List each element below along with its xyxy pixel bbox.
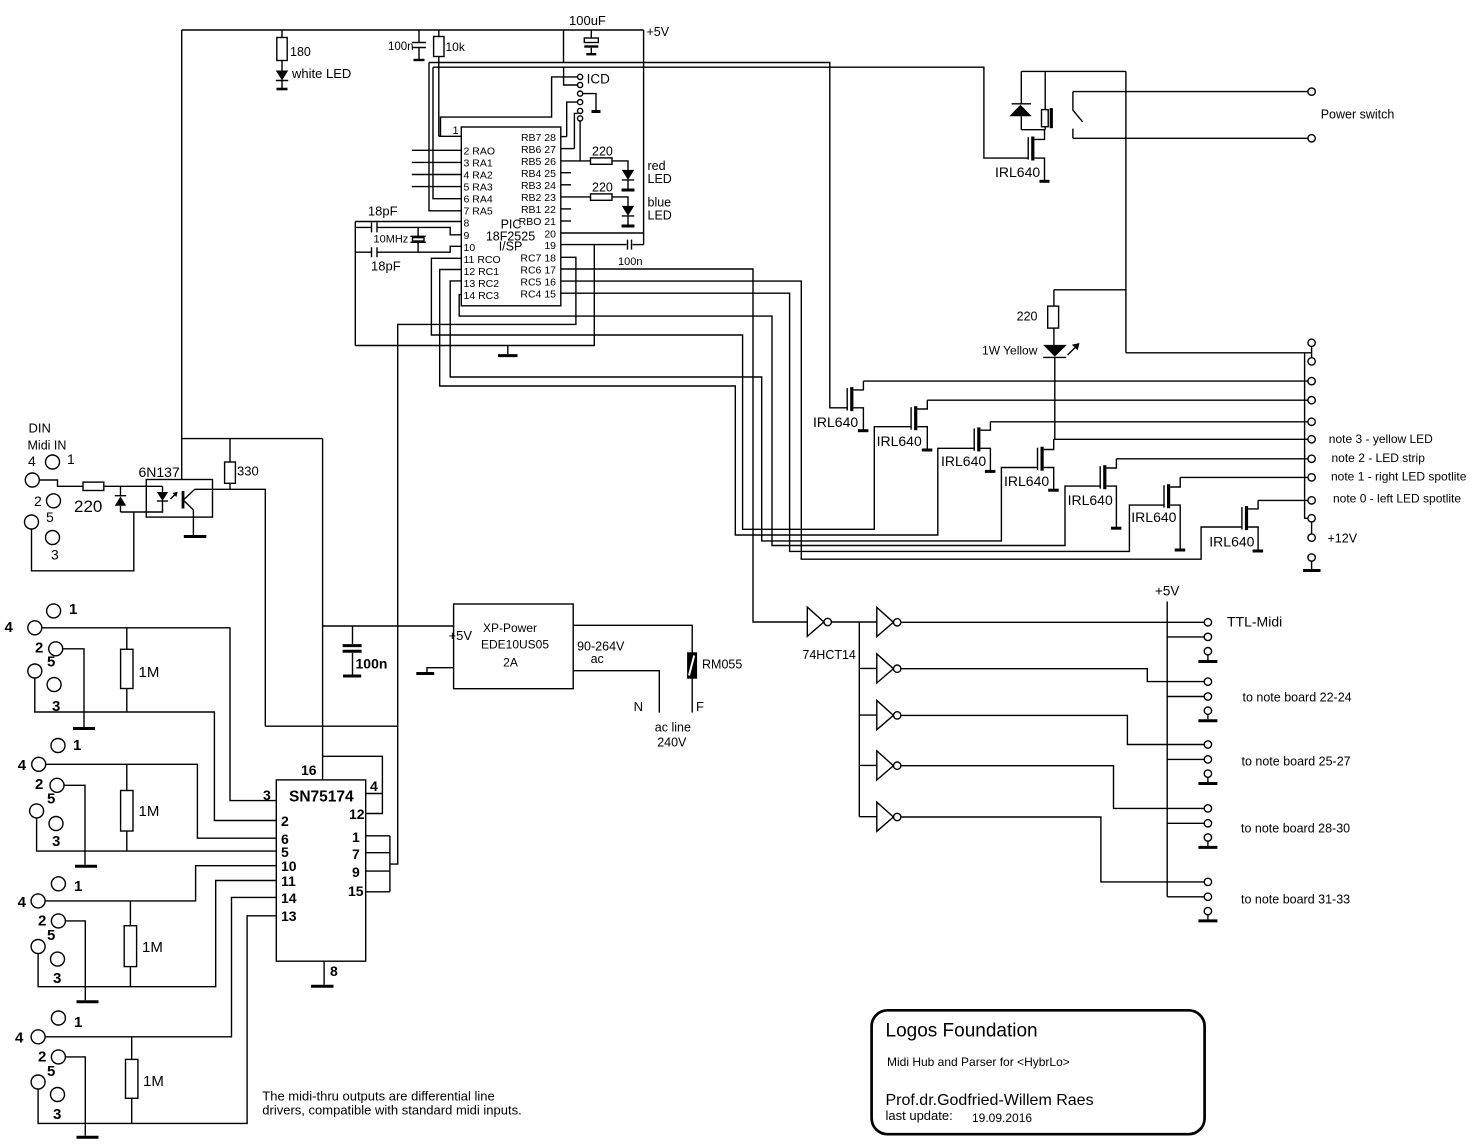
node terminals group3	[1204, 741, 1211, 748]
svg-text:7 RA5: 7 RA5	[464, 206, 493, 218]
svg-text:ac line: ac line	[655, 721, 691, 735]
svg-text:IRL640: IRL640	[1209, 534, 1254, 550]
wire jack1 pin5 to U3 pin2	[35, 678, 276, 821]
svg-text:4: 4	[28, 453, 36, 469]
node terminal circle	[1308, 135, 1315, 142]
ground ICD	[592, 110, 601, 113]
node terminal circle	[1308, 88, 1315, 95]
svg-text:note 1 - right LED spotlite: note 1 - right LED spotlite	[1331, 470, 1467, 484]
svg-text:5 RA3: 5 RA3	[464, 182, 493, 194]
wire inverter out to bus	[831, 621, 859, 623]
svg-text:1M: 1M	[143, 1073, 164, 1090]
wire RA0 stub	[412, 149, 462, 151]
svg-text:RC7 18: RC7 18	[520, 253, 556, 265]
transistor Q1 IRL640 top	[1027, 137, 1029, 159]
ground opto	[184, 535, 207, 538]
wire 220 to opto LED	[104, 485, 163, 487]
svg-text:4: 4	[18, 894, 27, 911]
svg-text:LED: LED	[648, 172, 672, 186]
svg-text:+5V: +5V	[1155, 584, 1179, 599]
wire pin8 VSS to crystal gnd bus	[355, 221, 461, 223]
svg-text:14: 14	[281, 890, 297, 906]
svg-text:14 RC3: 14 RC3	[464, 290, 500, 302]
svg-text:white LED: white LED	[291, 66, 351, 81]
wire Q2 drain to note terminal	[863, 380, 1308, 382]
wire Q4 drain to note terminal	[990, 421, 1308, 423]
resistor load top	[1042, 110, 1049, 127]
svg-text:1W Yellow: 1W Yellow	[982, 344, 1038, 358]
svg-text:RB4 25: RB4 25	[521, 168, 556, 180]
svg-text:1: 1	[352, 829, 360, 845]
wire switch to terminal top	[1073, 91, 1308, 93]
svg-text:4 RA2: 4 RA2	[464, 170, 493, 182]
svg-text:I/SP: I/SP	[499, 240, 523, 254]
wire RA3 stub	[412, 186, 462, 188]
switch SW1 power	[1073, 92, 1083, 139]
wire jack3 pin4 to U3 pin10	[45, 866, 276, 901]
capacitor 100n decoupling right	[628, 240, 632, 250]
wire jack1 shield to gnd	[63, 649, 84, 727]
wire branch to 220 yellow	[1054, 289, 1126, 291]
svg-text:4: 4	[370, 778, 378, 794]
svg-text:100n: 100n	[356, 656, 388, 672]
svg-text:N: N	[634, 699, 643, 714]
svg-text:RB1 22: RB1 22	[521, 204, 556, 216]
wire diode to drain	[1021, 129, 1044, 131]
svg-text:16: 16	[301, 762, 317, 778]
svg-text:note 2 - LED strip: note 2 - LED strip	[1332, 451, 1426, 465]
wire opto output to RX net	[265, 725, 397, 727]
svg-text:1: 1	[69, 601, 77, 618]
svg-text:19: 19	[544, 240, 556, 252]
wire Q5 drain to note terminal	[1054, 438, 1308, 440]
node gnd terminal	[1308, 554, 1315, 561]
node +12V terminal	[1311, 522, 1313, 534]
wire crystal left vertical	[354, 222, 356, 346]
wire +5V riser to SN75174 pin16	[322, 439, 324, 780]
wire jack2 pin5 to U3 pin5	[37, 818, 277, 851]
svg-text:to note board 31-33: to note board 31-33	[1241, 893, 1350, 907]
svg-text:1: 1	[453, 125, 459, 137]
svg-text:to note board 28-30: to note board 28-30	[1241, 822, 1350, 836]
svg-text:2: 2	[35, 776, 43, 793]
svg-text:5: 5	[47, 927, 55, 944]
svg-text:IRL640: IRL640	[1068, 492, 1113, 508]
svg-text:RM055: RM055	[702, 658, 742, 672]
capacitor 100n reservoir	[352, 626, 354, 644]
wire opto emitter to ground	[192, 510, 194, 535]
svg-text:2: 2	[38, 1049, 46, 1066]
svg-text:8: 8	[464, 218, 470, 230]
capacitor 100n top-left	[418, 30, 420, 42]
wire jack3 pin5 to U3 pin11	[38, 881, 276, 987]
white LED D1	[276, 71, 288, 81]
svg-text:15: 15	[348, 883, 364, 899]
wire Q6 drain to note terminal	[1116, 458, 1308, 460]
resistor 1M jack2	[126, 764, 128, 790]
svg-text:RB2 23: RB2 23	[521, 192, 556, 204]
resistor 220 midi in	[83, 482, 104, 490]
svg-text:+5V: +5V	[647, 25, 670, 39]
opto internal LED	[162, 486, 164, 492]
svg-text:1: 1	[73, 737, 81, 754]
opto arrow	[171, 493, 177, 499]
wire PIC pin1 MCLR	[439, 135, 462, 137]
svg-text:240V: 240V	[657, 736, 687, 750]
svg-text:5: 5	[47, 1063, 55, 1080]
wire RC1 pin12 to Q4 gate	[440, 270, 975, 536]
svg-text:blue: blue	[648, 196, 672, 210]
svg-text:note 3 - yellow LED: note 3 - yellow LED	[1329, 432, 1433, 446]
resistor 180	[281, 30, 283, 38]
svg-text:RBO 21: RBO 21	[519, 216, 557, 228]
opto transistor	[182, 491, 185, 509]
inverter U4f	[859, 802, 893, 831]
svg-text:ICD: ICD	[587, 72, 611, 87]
connector DIN thru jack1	[47, 604, 61, 618]
svg-text:LED: LED	[648, 209, 672, 223]
svg-text:+12V: +12V	[1328, 532, 1358, 546]
connector DIN thru jack3	[51, 877, 65, 891]
inverter U4b	[859, 607, 893, 636]
wire RB0 stub	[561, 220, 571, 222]
resistor 1M jack1	[126, 628, 128, 650]
wire +12V bus vertical	[1305, 353, 1308, 519]
connector DIN IN circles	[46, 455, 60, 469]
wire PSU ac live	[573, 625, 692, 653]
diode flyback top	[1020, 71, 1022, 103]
ground jack4	[77, 1136, 99, 1139]
svg-text:330: 330	[237, 464, 259, 479]
wire +12V switched rail top	[1021, 70, 1126, 72]
resistor 330 pullup	[229, 439, 231, 462]
svg-text:10: 10	[464, 242, 476, 254]
svg-text:EDE10US05: EDE10US05	[481, 638, 549, 652]
transistor Q5 IRL640	[1037, 448, 1039, 470]
node terminals group5	[1204, 878, 1211, 885]
svg-text:IRL640: IRL640	[813, 414, 858, 430]
svg-text:4: 4	[5, 619, 14, 636]
svg-text:220: 220	[1017, 310, 1038, 324]
wire +5V top rail	[182, 29, 644, 31]
svg-text:100uF: 100uF	[569, 13, 606, 28]
svg-text:to note board 22-24: to note board 22-24	[1243, 691, 1352, 705]
svg-text:220: 220	[592, 144, 613, 158]
ground crystal/VSS	[507, 346, 509, 355]
svg-text:2A: 2A	[503, 656, 518, 670]
inverter U4a 74HCT14	[807, 607, 824, 636]
node terminal circles right column	[1308, 339, 1315, 346]
blue LED	[622, 206, 634, 216]
IC SN75174 U3	[276, 780, 365, 961]
svg-text:1: 1	[74, 878, 82, 895]
wire RC3 pin14 to Q6 gate	[459, 295, 1101, 546]
svg-text:Logos Foundation: Logos Foundation	[886, 1021, 1038, 1042]
svg-text:2: 2	[281, 813, 289, 829]
svg-text:RC4 15: RC4 15	[520, 289, 556, 301]
transistor Q7 IRL640	[1163, 485, 1165, 507]
wire +12V to terminal column	[1126, 352, 1312, 354]
svg-text:drivers, compatible with stand: drivers, compatible with standard midi i…	[262, 1102, 521, 1117]
transistor Q3 IRL640	[910, 407, 912, 429]
wire opto LED cathode return	[121, 501, 163, 512]
svg-text:DIN: DIN	[29, 421, 51, 436]
svg-text:12 RC1: 12 RC1	[464, 266, 500, 278]
svg-text:6 RA4: 6 RA4	[464, 194, 493, 206]
svg-text:1: 1	[74, 1014, 82, 1031]
svg-text:1M: 1M	[139, 803, 160, 820]
svg-text:5: 5	[47, 790, 55, 807]
svg-text:20: 20	[544, 229, 556, 241]
wire U4e out to board 28-30	[901, 766, 1204, 809]
transistor Q8 IRL640	[1241, 507, 1243, 529]
inverter U4c	[859, 654, 893, 683]
svg-text:Prof.dr.Godfried-Willem Raes: Prof.dr.Godfried-Willem Raes	[886, 1092, 1094, 1109]
svg-text:Midi IN: Midi IN	[28, 439, 67, 453]
svg-text:10: 10	[281, 858, 297, 874]
red LED	[622, 170, 634, 180]
title block Logos Foundation	[872, 1010, 1205, 1134]
wire inverter input bus	[858, 622, 860, 817]
ground jack1	[73, 727, 95, 730]
svg-text:red: red	[648, 159, 666, 173]
transistor Q4 IRL640	[973, 428, 975, 450]
svg-text:IRL640: IRL640	[1004, 473, 1049, 489]
wire RB6 pin27 stub	[561, 148, 575, 150]
svg-text:12: 12	[349, 806, 365, 822]
wire U4f out to board 31-33	[901, 817, 1204, 882]
wire RC0 pin11 to Q3 gate	[431, 258, 911, 529]
svg-text:18pF: 18pF	[371, 259, 401, 274]
svg-text:2: 2	[38, 913, 46, 930]
svg-text:13 RC2: 13 RC2	[464, 278, 500, 290]
wire +5V to opto vcc	[181, 439, 183, 480]
transistor Q6 IRL640	[1099, 466, 1101, 488]
wire RA4 rail to Q1 gate	[433, 67, 1029, 158]
wire pin20 VDD	[561, 232, 644, 234]
inverter U4d	[859, 701, 893, 730]
wire RB7 pin28 stub	[561, 136, 567, 138]
wire Q7 drain to note terminal	[1180, 476, 1308, 478]
svg-text:IRL640: IRL640	[1131, 509, 1176, 525]
svg-text:3: 3	[53, 970, 61, 987]
svg-text:F: F	[696, 699, 704, 714]
resistor 10k	[438, 30, 440, 37]
svg-text:note 0 - left LED spotlite: note 0 - left LED spotlite	[1333, 492, 1461, 506]
arrow	[1068, 344, 1079, 355]
wire ICD pin6 to RB5	[579, 121, 581, 161]
wire jack2 shield to gnd	[64, 785, 85, 865]
node terminals group4	[1204, 805, 1211, 812]
wire Q8 drain to note terminal	[1258, 499, 1308, 501]
wire ICD pin3 to ground	[583, 94, 596, 111]
thick bar element	[1050, 108, 1053, 128]
wire RC2 pin13 to Q5 gate	[450, 281, 1038, 541]
svg-text:RC5 16: RC5 16	[520, 277, 556, 289]
connector DIN thru jack2	[51, 739, 65, 753]
wire U4c out to board 22-24	[901, 669, 1204, 682]
svg-text:2 RAO: 2 RAO	[464, 146, 496, 158]
wire RB3 stub	[561, 184, 571, 186]
wire +5V stubs	[1167, 637, 1204, 897]
ICD connector circles	[578, 74, 583, 79]
svg-text:last update:: last update:	[886, 1108, 953, 1123]
wire input bus pins 1,7,9,15	[366, 836, 390, 892]
svg-text:to note board 25-27: to note board 25-27	[1242, 755, 1351, 769]
resistor 1M jack3	[129, 901, 131, 926]
ground SN75174 pin8	[323, 961, 325, 985]
svg-text:SN75174: SN75174	[289, 789, 354, 806]
wire +12V drop right	[1125, 71, 1127, 352]
wire U4b out to TTL-Midi	[901, 621, 1204, 623]
svg-text:XP-Power: XP-Power	[483, 621, 537, 635]
wire ICD pin1 to MCLR	[441, 77, 578, 136]
svg-text:180: 180	[290, 45, 311, 59]
svg-text:100n: 100n	[618, 256, 642, 268]
inverter U4e	[859, 751, 893, 780]
power supply XP-Power PS1	[454, 604, 574, 689]
wire 100uF box left vertical	[563, 30, 565, 63]
wire jack4 pin4 to U3 pin14	[45, 897, 276, 1036]
svg-text:IRL640: IRL640	[941, 453, 986, 469]
transistor Q2 IRL640	[846, 388, 848, 410]
svg-text:3: 3	[53, 1106, 61, 1123]
wire RC4 pin15 to Q7 gate	[561, 293, 1165, 551]
svg-text:IRL640: IRL640	[877, 433, 922, 449]
svg-text:RB6 27: RB6 27	[521, 144, 556, 156]
wire U4d out to board 25-27	[901, 715, 1204, 744]
wire RA5 rail to Q2 gate	[429, 63, 848, 408]
node terminals group2	[1204, 678, 1211, 685]
wire jack2 pin4 to U3 pin6	[46, 764, 277, 838]
svg-text:2: 2	[35, 640, 43, 657]
ground jack3	[77, 1000, 99, 1003]
svg-text:10k: 10k	[446, 40, 466, 54]
wire ICD pin2 to rail	[564, 67, 578, 85]
wire RB1 stub	[561, 208, 571, 210]
svg-text:7: 7	[352, 846, 360, 862]
wire jack1 pin4 to U3 pin3	[42, 628, 276, 801]
svg-text:Power switch: Power switch	[1321, 107, 1395, 121]
svg-text:5: 5	[47, 654, 55, 671]
svg-text:4: 4	[15, 1030, 24, 1047]
svg-text:11 RCO: 11 RCO	[464, 254, 501, 266]
svg-text:100n: 100n	[388, 41, 414, 53]
svg-text:74HCT14: 74HCT14	[802, 648, 856, 662]
wire +5V across to SN75174 riser	[182, 438, 323, 440]
svg-text:RB5 26: RB5 26	[521, 156, 556, 168]
svg-text:TTL-Midi: TTL-Midi	[1227, 614, 1282, 630]
fuse RM055	[688, 653, 697, 678]
svg-text:6N137: 6N137	[139, 464, 180, 480]
svg-text:9: 9	[464, 230, 470, 242]
svg-text:Midi Hub and Parser for <HybrL: Midi Hub and Parser for <HybrLo>	[887, 1055, 1070, 1069]
ground jack2	[75, 865, 97, 868]
svg-text:220: 220	[74, 497, 102, 516]
svg-text:2: 2	[34, 493, 42, 509]
svg-text:IRL640: IRL640	[995, 164, 1040, 180]
wire pin19 VSS right	[561, 244, 627, 246]
connector DIN thru jack4	[51, 1011, 65, 1025]
wire pins 4+12 enable tie	[323, 756, 383, 813]
svg-text:3: 3	[51, 547, 59, 563]
wire RC6 pin17 to 74HCT14	[561, 269, 808, 622]
node TTL terminals group1	[1204, 619, 1211, 626]
svg-text:220: 220	[592, 180, 613, 194]
svg-text:3 RA1: 3 RA1	[464, 158, 493, 170]
wire Q3 drain to note terminal	[927, 399, 1308, 401]
wire VSS pin19 ground line	[355, 245, 594, 346]
svg-text:RC6 17: RC6 17	[520, 265, 556, 277]
wire switch to terminal bottom	[1073, 137, 1308, 139]
svg-text:3: 3	[52, 833, 60, 850]
diode protection 1N4148	[120, 486, 122, 496]
wire DIN pin4 to 220	[39, 480, 83, 486]
ground PSU	[427, 668, 454, 672]
svg-text:10MHz: 10MHz	[373, 234, 408, 246]
wire PSU +5V feed	[323, 625, 454, 627]
wire RA5 stub drop	[429, 63, 461, 211]
svg-text:1M: 1M	[139, 664, 160, 681]
wire PSU ac neutral	[573, 671, 659, 713]
svg-text:11: 11	[281, 873, 296, 889]
svg-text:8: 8	[330, 963, 338, 979]
wire ICD pin4 to RB7	[567, 102, 578, 137]
wire RB4 stub	[561, 172, 571, 174]
LED 1W Yellow	[1043, 345, 1067, 357]
svg-text:RB7 28: RB7 28	[521, 132, 556, 144]
wire ICD pin5 to RB6	[574, 113, 577, 148]
svg-text:13: 13	[281, 908, 297, 924]
svg-text:5: 5	[46, 509, 54, 525]
wire opto collector output	[195, 489, 265, 726]
resistor 1M jack4	[131, 1037, 133, 1060]
svg-text:19.09.2016: 19.09.2016	[972, 1111, 1032, 1125]
svg-text:18pF: 18pF	[368, 204, 398, 219]
resistor 220 yellow	[1053, 290, 1055, 306]
wire jack4 pin5 to U3 pin13	[38, 916, 276, 1124]
wire RC5 pin16 to Q8 gate	[561, 281, 1243, 559]
wire +5V vertical to PIC pin 20	[643, 30, 645, 245]
svg-text:ac: ac	[591, 652, 604, 666]
wire jack4 shield to gnd	[65, 1057, 85, 1136]
wire RC7 pin18 net (RX)	[390, 257, 576, 864]
wire RA2 stub	[412, 174, 462, 176]
wire jack3 shield to gnd	[65, 921, 85, 1000]
wire RA4 stub drop	[433, 67, 461, 199]
svg-text:1M: 1M	[142, 939, 163, 956]
wire +5V left vertical drop to 6N137 area	[181, 30, 183, 439]
wire RA1 stub	[412, 161, 462, 163]
wire yellow LED to Q5 drain	[1054, 357, 1056, 439]
wire return to DIN pin5	[32, 512, 134, 571]
svg-text:1: 1	[67, 451, 75, 467]
op-amp? no: PIC U1 box	[461, 127, 561, 306]
svg-text:9: 9	[352, 864, 360, 880]
svg-text:4: 4	[18, 757, 27, 774]
svg-text:+5V: +5V	[449, 628, 473, 643]
svg-text:RB3 24: RB3 24	[521, 180, 556, 192]
